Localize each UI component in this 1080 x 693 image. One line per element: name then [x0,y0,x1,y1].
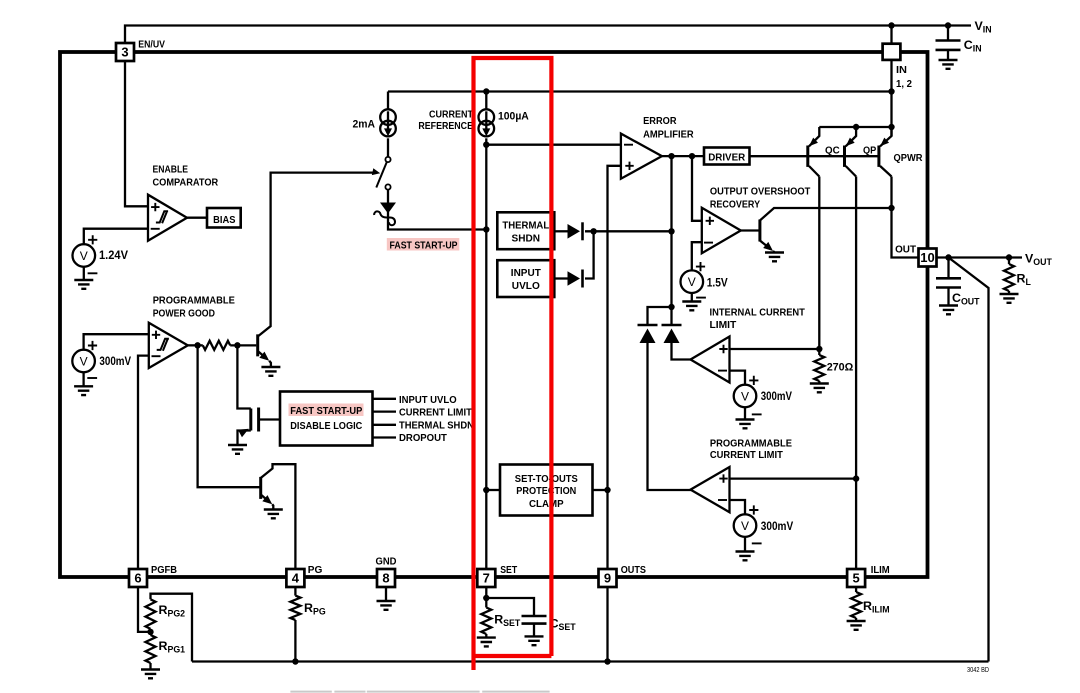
svg-text:COMPARATOR: COMPARATOR [153,178,219,189]
svg-text:PROGRAMMABLE: PROGRAMMABLE [710,439,792,450]
svg-text:SET-TO-OUTS: SET-TO-OUTS [515,474,578,485]
svg-text:3: 3 [121,45,128,60]
svg-text:DROPOUT: DROPOUT [399,433,448,444]
svg-text:THERMAL: THERMAL [502,220,549,231]
svg-text:270Ω: 270Ω [827,362,854,374]
svg-text:OUT: OUT [895,244,917,255]
svg-text:INPUT: INPUT [511,268,542,279]
svg-text:SHDN: SHDN [512,233,541,244]
svg-text:4: 4 [292,571,300,586]
svg-text:GND: GND [376,557,397,568]
svg-text:7: 7 [483,571,490,586]
svg-text:2mA: 2mA [353,119,376,131]
svg-text:REFERENCE: REFERENCE [418,121,473,132]
svg-text:V: V [741,389,749,403]
svg-text:OUTS: OUTS [621,565,647,576]
svg-text:ENABLE: ENABLE [153,164,189,175]
svg-text:QPWR: QPWR [894,153,924,164]
svg-text:QP: QP [863,145,877,156]
svg-text:INPUT UVLO: INPUT UVLO [399,395,457,406]
svg-text:EN/UV: EN/UV [138,39,165,50]
svg-text:300mV: 300mV [761,389,792,403]
svg-text:LIMIT: LIMIT [710,320,738,331]
svg-text:DRIVER: DRIVER [708,152,746,163]
svg-text:CLAMP: CLAMP [529,499,564,510]
svg-text:SET: SET [500,565,518,576]
svg-text:PROGRAMMABLE: PROGRAMMABLE [153,296,235,307]
svg-text:ERROR: ERROR [643,116,677,127]
svg-text:AMPLIFIER: AMPLIFIER [643,129,694,140]
svg-text:THERMAL SHDN: THERMAL SHDN [399,420,474,431]
svg-text:3042 BD: 3042 BD [967,667,989,674]
svg-text:V: V [688,275,696,289]
svg-text:PROTECTION: PROTECTION [516,486,576,497]
svg-text:FAST START-UP: FAST START-UP [390,240,458,251]
svg-text:BIAS: BIAS [213,215,236,226]
svg-text:QC: QC [825,145,840,156]
svg-text:V: V [80,354,88,368]
svg-text:1.5V: 1.5V [707,276,728,290]
svg-text:10: 10 [920,250,934,265]
svg-text:FAST START-UP: FAST START-UP [290,406,362,417]
svg-text:300mV: 300mV [99,354,131,368]
svg-text:1.24V: 1.24V [99,248,128,262]
svg-text:V: V [741,519,749,533]
svg-text:8: 8 [382,571,389,586]
svg-text:DISABLE LOGIC: DISABLE LOGIC [290,421,363,432]
svg-text:PGFB: PGFB [151,565,177,576]
svg-text:100µA: 100µA [498,111,529,123]
svg-text:RECOVERY: RECOVERY [710,200,760,211]
svg-text:1, 2: 1, 2 [896,79,912,90]
svg-text:6: 6 [134,571,141,586]
svg-text:POWER GOOD: POWER GOOD [153,309,215,320]
svg-text:ILIM: ILIM [871,565,890,576]
svg-text:CURRENT: CURRENT [429,109,474,120]
svg-text:PG: PG [308,565,323,576]
svg-text:5: 5 [852,571,859,586]
svg-text:300mV: 300mV [761,519,793,533]
svg-text:IN: IN [896,65,907,76]
svg-text:V: V [80,249,88,263]
svg-text:9: 9 [604,571,611,586]
svg-text:INTERNAL CURRENT: INTERNAL CURRENT [710,307,806,318]
svg-text:OUTPUT OVERSHOOT: OUTPUT OVERSHOOT [710,187,811,198]
svg-text:CURRENT LIMIT: CURRENT LIMIT [710,450,784,461]
svg-text:UVLO: UVLO [512,281,540,292]
svg-text:CURRENT LIMIT: CURRENT LIMIT [399,408,473,419]
